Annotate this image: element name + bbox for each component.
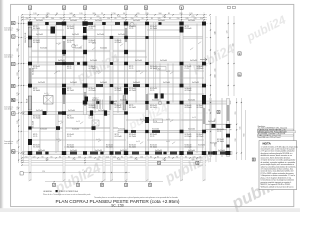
boxed label mid-right [154, 119, 163, 123]
beam band vertical axis 6 x181 [180, 22, 183, 155]
svg-text:G: G [239, 74, 241, 77]
svg-text:G2 25x45: G2 25x45 [115, 90, 122, 92]
svg-text:SP 25: SP 25 [129, 66, 133, 68]
svg-text:150: 150 [130, 156, 133, 158]
svg-text:B: B [12, 84, 14, 88]
svg-text:340: 340 [214, 31, 216, 34]
axis centerlines [21, 12, 208, 166]
svg-text:SP 25: SP 25 [115, 134, 119, 136]
svg-text:G5 20x35: G5 20x35 [129, 146, 136, 148]
svg-text:140: 140 [17, 28, 19, 31]
svg-text:85: 85 [121, 156, 123, 158]
svg-text:C1 25: C1 25 [129, 28, 133, 30]
svg-text:Ap: Ap [12, 150, 16, 154]
left dimension lines [19, 16, 24, 163]
axis stubs below plan [29, 156, 31, 181]
svg-text:h=13: h=13 [136, 141, 140, 143]
svg-text:90: 90 [56, 13, 58, 15]
svg-text:230: 230 [235, 139, 237, 142]
lower partial dim line [22, 172, 130, 174]
svg-text:S2 35x45: S2 35x45 [150, 134, 157, 136]
svg-text:Gr.25x40: Gr.25x40 [210, 142, 217, 145]
drawing frame [11, 4, 294, 206]
svg-text:Gr.25x40: Gr.25x40 [70, 149, 77, 152]
beam band vertical axis 1 x30 [29, 22, 32, 155]
svg-text:G3 30x40: G3 30x40 [150, 146, 157, 148]
svg-text:265: 265 [96, 159, 99, 161]
svg-text:150: 150 [107, 18, 110, 20]
beam band y113 left [23, 112, 128, 115]
beam band vertical axis 2 x64 [63, 22, 66, 155]
svg-text:210: 210 [25, 156, 28, 158]
svg-text:G5 20x35: G5 20x35 [197, 107, 204, 109]
svg-text:25: 25 [101, 13, 103, 15]
svg-text:145: 145 [117, 159, 120, 161]
svg-text:G1 25x40: G1 25x40 [150, 28, 157, 30]
svg-text:h=13: h=13 [96, 139, 100, 141]
svg-text:G1 25x40: G1 25x40 [33, 117, 40, 119]
svg-text:Gr.25x40: Gr.25x40 [163, 81, 170, 84]
small axis bubble left of nota [252, 158, 255, 161]
svg-text:G2 25x45: G2 25x45 [129, 90, 136, 92]
svg-text:vezi detaliu: vezi detaliu [4, 142, 13, 145]
svg-text:Gr.25x40: Gr.25x40 [118, 33, 125, 36]
svg-text:Gr.30x45: Gr.30x45 [36, 33, 43, 36]
svg-text:S2 35x45: S2 35x45 [129, 88, 136, 90]
svg-text:S3 45x35: S3 45x35 [129, 26, 136, 28]
svg-text:Gr.25x35: Gr.25x35 [120, 149, 127, 152]
scan edge bottom [0, 208, 300, 212]
svg-text:215: 215 [17, 140, 19, 143]
svg-text:SP 25: SP 25 [129, 105, 133, 107]
svg-text:h=13: h=13 [74, 45, 78, 47]
beam line y37 right part [148, 36, 206, 38]
svg-text:Gr.25x35: Gr.25x35 [38, 81, 45, 84]
svg-text:G5 20x35: G5 20x35 [150, 107, 157, 109]
svg-text:85: 85 [168, 13, 170, 15]
svg-text:220: 220 [17, 72, 19, 75]
svg-text:260: 260 [179, 13, 182, 15]
svg-text:h=13: h=13 [192, 117, 196, 119]
thin beam line y128 left part [29, 127, 118, 128]
svg-text:Gr.25x35: Gr.25x35 [155, 149, 162, 152]
svg-text:hp=13: hp=13 [113, 101, 118, 103]
svg-text:S4 40x40: S4 40x40 [185, 88, 192, 90]
svg-text:145: 145 [117, 16, 120, 18]
beam band vertical axis 4 x126 [125, 22, 128, 155]
svg-text:h=13: h=13 [140, 119, 144, 121]
svg-text:Gr.25x35: Gr.25x35 [120, 98, 127, 101]
svg-text:90: 90 [168, 156, 170, 158]
right wing dimension lines [237, 98, 246, 160]
svg-text:Gr.30x45: Gr.30x45 [133, 81, 140, 84]
svg-text:210: 210 [134, 159, 137, 161]
svg-text:G3 30x40: G3 30x40 [67, 28, 74, 30]
svg-text:S2 35x45: S2 35x45 [197, 105, 204, 107]
svg-text:210: 210 [106, 156, 109, 158]
svg-text:G2 25x45: G2 25x45 [185, 90, 192, 92]
svg-text:Gr.20x40: Gr.20x40 [218, 149, 225, 152]
svg-text:Gr.25x35: Gr.25x35 [133, 19, 140, 22]
svg-text:365: 365 [92, 13, 95, 15]
svg-text:240: 240 [51, 18, 54, 20]
beam line vertical x155 top-right [154, 22, 156, 88]
svg-text:G1 25x40: G1 25x40 [89, 90, 96, 92]
svg-text:185: 185 [17, 120, 19, 123]
svg-text:G1 25x40: G1 25x40 [185, 136, 192, 138]
svg-text:S1 45x45: S1 45x45 [115, 105, 122, 107]
svg-text:150: 150 [60, 18, 63, 20]
svg-text:SP 25: SP 25 [33, 88, 37, 90]
svg-text:90: 90 [123, 13, 125, 15]
shear wall end blobs offset from bands [51, 27, 56, 34]
secondary beam lines horizontal [29, 29, 204, 147]
svg-text:SP 25: SP 25 [185, 26, 189, 28]
svg-text:G2 25x45: G2 25x45 [115, 42, 122, 44]
svg-text:340: 340 [45, 159, 48, 161]
svg-text:120: 120 [140, 156, 143, 158]
beam band vertical axis 5 x147 [146, 22, 149, 155]
svg-text:300: 300 [158, 13, 161, 15]
svg-text:G3 30x40: G3 30x40 [185, 107, 192, 109]
wall segments on horizontal bands [56, 22, 63, 25]
svg-text:C1 25: C1 25 [33, 136, 37, 138]
svg-text:85: 85 [99, 156, 101, 158]
svg-text:65: 65 [90, 18, 92, 20]
svg-text:S3 45x35: S3 45x35 [150, 105, 157, 107]
svg-text:G3 30x40: G3 30x40 [150, 68, 157, 70]
svg-text:C1 25: C1 25 [67, 42, 71, 44]
svg-text:S1 45x45: S1 45x45 [89, 40, 96, 42]
svg-text:S1 45x45: S1 45x45 [67, 40, 74, 42]
svg-text:S4 40x40: S4 40x40 [185, 105, 192, 107]
svg-text:S3 45x35: S3 45x35 [115, 40, 122, 42]
svg-text:Gr.25x40: Gr.25x40 [97, 33, 104, 36]
svg-text:C1 25: C1 25 [129, 68, 133, 70]
svg-text:260: 260 [17, 48, 19, 51]
svg-text:h=13: h=13 [56, 139, 60, 141]
svg-text:Gr.20x40: Gr.20x40 [90, 59, 97, 62]
svg-text:A: A [12, 112, 14, 116]
svg-text:S1 45x45: S1 45x45 [150, 88, 157, 90]
scan edge left [0, 0, 2, 212]
svg-text:Gr.20x40: Gr.20x40 [160, 59, 167, 62]
svg-text:Gr.20x40: Gr.20x40 [188, 127, 195, 130]
bottom dimension lines [22, 158, 206, 165]
svg-text:STALPI SI PERETI B.A.: STALPI SI PERETI B.A. [59, 190, 79, 193]
svg-text:vezi detaliu: vezi detaliu [4, 108, 13, 111]
svg-text:Gr.25x40: Gr.25x40 [95, 19, 102, 22]
svg-text:345: 345 [162, 16, 165, 18]
svg-text:h=13: h=13 [44, 93, 48, 95]
svg-text:SC. 1:50: SC. 1:50 [111, 204, 124, 208]
svg-text:Gr.20x40: Gr.20x40 [135, 59, 142, 62]
svg-text:G1 25x40: G1 25x40 [185, 146, 192, 148]
svg-text:210: 210 [72, 16, 75, 18]
svg-text:vezi detaliu: vezi detaliu [4, 56, 13, 59]
svg-text:S4 40x40: S4 40x40 [185, 145, 192, 147]
svg-text:C1 25: C1 25 [67, 136, 71, 138]
svg-text:Gr.20x40: Gr.20x40 [152, 98, 159, 101]
svg-text:SP 25: SP 25 [67, 66, 71, 68]
svg-text:Gr.30x45: Gr.30x45 [118, 127, 125, 130]
beam band y131 right part [118, 130, 206, 133]
stair hatch cluster [93, 100, 102, 110]
svg-text:Gr.25x35: Gr.25x35 [95, 149, 102, 152]
secondary beam lines vertical [37, 24, 222, 158]
svg-text:Gr.25x35: Gr.25x35 [190, 59, 197, 62]
shaft opening with diagonals [44, 96, 54, 105]
top axis bubbles [29, 9, 31, 15]
svg-text:Gr.30x45: Gr.30x45 [70, 81, 77, 84]
small room walls x110-124 [110, 96, 111, 110]
svg-text:E: E [12, 21, 14, 25]
svg-text:G2 25x45: G2 25x45 [197, 136, 204, 138]
svg-text:h=13: h=13 [166, 141, 170, 143]
svg-text:vezi detaliu: vezi detaliu [4, 29, 13, 32]
svg-text:P1 20: P1 20 [25, 33, 27, 37]
svg-text:h=13: h=13 [92, 43, 96, 45]
svg-text:120: 120 [227, 31, 229, 34]
svg-text:S2 35x45: S2 35x45 [217, 139, 224, 141]
svg-text:S1 45x45: S1 45x45 [150, 145, 157, 147]
svg-text:90: 90 [176, 156, 178, 158]
svg-text:BETON C20/25 OTEL PC52+OB37: BETON C20/25 OTEL PC52+OB37 DDE [258, 131, 287, 133]
svg-text:G1 25x40: G1 25x40 [33, 28, 40, 30]
svg-text:Beneficiar:: Beneficiar: [258, 126, 266, 128]
svg-text:Gr.25x40: Gr.25x40 [38, 149, 45, 152]
svg-text:C: C [12, 62, 14, 66]
svg-text:G5 20x35: G5 20x35 [67, 117, 74, 119]
svg-text:SP 25: SP 25 [67, 116, 71, 118]
bubbles just below bottom band [158, 161, 161, 164]
svg-text:Gr.25x40: Gr.25x40 [208, 120, 215, 123]
svg-text:S3 45x35: S3 45x35 [89, 105, 96, 107]
svg-text:G5 20x35: G5 20x35 [106, 146, 113, 148]
beam band y63 [29, 62, 206, 65]
svg-text:Gr.25x35: Gr.25x35 [58, 59, 65, 62]
beam band vertical axis 3 x85 [84, 22, 87, 115]
svg-text:Gr.25x40: Gr.25x40 [188, 19, 195, 22]
svg-text:120: 120 [42, 171, 45, 173]
svg-text:SP 25: SP 25 [67, 88, 71, 90]
small circles symbols [130, 22, 134, 26]
svg-text:150: 150 [122, 18, 125, 20]
left axis bubbles [15, 22, 19, 24]
right wing side bubble [217, 111, 220, 114]
svg-text:Gr.25x40: Gr.25x40 [40, 46, 47, 49]
svg-text:Gr.30x45: Gr.30x45 [158, 19, 165, 22]
svg-text:S4 40x40: S4 40x40 [150, 66, 157, 68]
bottom axis bubble row [45, 181, 163, 183]
svg-text:85: 85 [157, 156, 159, 158]
svg-text:210: 210 [72, 159, 75, 161]
svg-text:255: 255 [235, 112, 237, 115]
beam band bottom y153 [23, 151, 233, 154]
svg-text:25x110: 25x110 [25, 38, 27, 43]
svg-text:Gr.20x40: Gr.20x40 [98, 109, 105, 112]
svg-text:Gr.25x35: Gr.25x35 [192, 81, 199, 84]
svg-text:85: 85 [200, 156, 202, 158]
right axis bubbles [238, 52, 241, 55]
svg-text:h=13: h=13 [136, 71, 140, 73]
beam band axis1 horizontal top [29, 22, 206, 25]
svg-text:S2 35x45: S2 35x45 [89, 88, 96, 90]
svg-text:Gr.20x40: Gr.20x40 [92, 98, 99, 101]
svg-text:C1 25: C1 25 [89, 28, 93, 30]
svg-text:Terasele plan se va verifica r: Terasele plan se va verifica respectarea… [94, 196, 178, 199]
svg-text:210: 210 [134, 16, 137, 18]
svg-text:120: 120 [33, 13, 36, 15]
svg-text:G3 30x40: G3 30x40 [33, 90, 40, 92]
svg-text:415: 415 [84, 171, 87, 173]
columns at axis intersections [28, 22, 32, 26]
svg-text:S2 35x45: S2 35x45 [185, 134, 192, 136]
svg-text:S3 45x35: S3 45x35 [33, 145, 40, 147]
beam band vertical right edge x204 [203, 22, 206, 155]
svg-text:C1 25: C1 25 [150, 136, 154, 138]
svg-text:120: 120 [79, 18, 82, 20]
extra top-right small squares [228, 6, 231, 9]
svg-text:C1 25: C1 25 [217, 131, 221, 133]
svg-text:S3 45x35: S3 45x35 [150, 26, 157, 28]
svg-text:S1 45x45: S1 45x45 [67, 134, 74, 136]
svg-text:Gr.30x45: Gr.30x45 [40, 127, 47, 130]
svg-text:S2 35x45: S2 35x45 [33, 40, 40, 42]
svg-text:S4 40x40: S4 40x40 [197, 66, 204, 68]
svg-text:120: 120 [79, 13, 82, 15]
svg-text:85: 85 [150, 156, 152, 158]
svg-text:h=13: h=13 [96, 71, 100, 73]
svg-text:545: 545 [240, 127, 242, 130]
svg-text:S4 40x40: S4 40x40 [89, 26, 96, 28]
beam band y85 [29, 84, 206, 87]
section arrow right [200, 58, 207, 61]
svg-text:430: 430 [214, 74, 216, 77]
svg-text:h=13: h=13 [166, 119, 170, 121]
svg-text:Gr.20x40: Gr.20x40 [188, 149, 195, 152]
framed wall on axis1 vertical [28, 27, 31, 47]
svg-text:C1 25: C1 25 [67, 68, 71, 70]
svg-text:345: 345 [162, 159, 165, 161]
svg-text:G2 25x45: G2 25x45 [115, 107, 122, 109]
svg-text:225: 225 [191, 159, 194, 161]
svg-text:210: 210 [112, 13, 115, 15]
svg-text:65: 65 [51, 156, 53, 158]
svg-text:S1 45x45: S1 45x45 [89, 66, 96, 68]
svg-text:S1 45x45: S1 45x45 [197, 134, 204, 136]
svg-text:S2 35x45: S2 35x45 [33, 66, 40, 68]
svg-text:h=13: h=13 [56, 43, 60, 45]
beam band y102 right [85, 101, 231, 104]
svg-text:85: 85 [59, 156, 61, 158]
NOTA block [259, 141, 297, 190]
svg-text:90: 90 [142, 18, 144, 20]
svg-text:C1 25: C1 25 [150, 90, 154, 92]
svg-text:Gr.20x40: Gr.20x40 [100, 46, 107, 49]
beam band vertical x111 [110, 36, 113, 155]
svg-text:SP 25: SP 25 [89, 116, 93, 118]
small opening 2 [92, 120, 99, 126]
svg-text:G2 25x45: G2 25x45 [67, 90, 74, 92]
svg-text:85: 85 [169, 18, 171, 20]
slab label top-right [157, 67, 166, 71]
svg-text:G3 30x40: G3 30x40 [197, 68, 204, 70]
svg-text:85: 85 [185, 156, 187, 158]
svg-text:Bp: Bp [12, 98, 16, 102]
svg-text:Gr.25x40: Gr.25x40 [68, 109, 75, 112]
svg-text:S2 35x45: S2 35x45 [129, 134, 136, 136]
svg-text:G3 30x40: G3 30x40 [217, 141, 224, 143]
svg-text:C1 25: C1 25 [89, 117, 93, 119]
svg-text:120: 120 [193, 156, 196, 158]
svg-text:G3 30x40: G3 30x40 [185, 28, 192, 30]
leader line marks [46, 42, 201, 144]
top dimension lines [22, 15, 207, 20]
svg-text:85: 85 [151, 18, 153, 20]
svg-text:S2 35x45: S2 35x45 [185, 66, 192, 68]
svg-text:h=13: h=13 [56, 71, 60, 73]
svg-text:240: 240 [78, 156, 81, 158]
svg-text:G2 25x45: G2 25x45 [89, 68, 96, 70]
svg-text:S1 45x45: S1 45x45 [67, 26, 74, 28]
svg-text:Verificarea calitatii se face: Verificarea calitatii se face pe faze de… [261, 185, 295, 188]
svg-text:h=13: h=13 [76, 121, 80, 123]
svg-text:525: 525 [214, 51, 216, 54]
svg-text:415: 415 [214, 69, 216, 72]
svg-text:150: 150 [26, 18, 29, 20]
svg-text:Gr.20x40: Gr.20x40 [36, 19, 43, 22]
svg-text:h=13: h=13 [166, 71, 170, 73]
svg-text:340: 340 [45, 16, 48, 18]
svg-text:S4 40x40: S4 40x40 [33, 116, 40, 118]
svg-text:Gr.30x45: Gr.30x45 [70, 19, 77, 22]
svg-text:Gr.25x40: Gr.25x40 [36, 109, 43, 112]
svg-text:S1 45x45: S1 45x45 [67, 145, 74, 147]
svg-text:G5 20x35: G5 20x35 [33, 146, 40, 148]
svg-text:Gr.25x35: Gr.25x35 [198, 144, 205, 147]
right wing beam lines y124 y130 [204, 124, 232, 130]
svg-text:105: 105 [17, 106, 19, 109]
svg-text:G3 30x40: G3 30x40 [89, 107, 96, 109]
svg-text:120: 120 [33, 156, 36, 158]
svg-text:D: D [12, 35, 14, 39]
svg-text:LEGENDA: LEGENDA [43, 190, 52, 193]
svg-text:Gr.25x35: Gr.25x35 [188, 98, 195, 101]
svg-text:85: 85 [115, 18, 117, 20]
svg-text:210: 210 [200, 18, 203, 20]
svg-text:S1 45x45: S1 45x45 [106, 145, 113, 147]
svg-text:90: 90 [42, 156, 44, 158]
svg-text:600: 600 [244, 134, 246, 137]
svg-text:340: 340 [232, 44, 234, 47]
svg-text:150: 150 [177, 18, 180, 20]
svg-text:NOTA: NOTA [263, 141, 272, 145]
svg-text:G1 25x40: G1 25x40 [129, 136, 136, 138]
svg-text:G2 25x40: G2 25x40 [33, 121, 35, 128]
svg-text:Gr.30x45: Gr.30x45 [100, 81, 107, 84]
svg-text:SP 25: SP 25 [33, 134, 37, 136]
svg-text:170: 170 [17, 92, 19, 95]
wall hatched segments [29, 68, 31, 88]
svg-text:S4 40x40: S4 40x40 [217, 129, 224, 131]
svg-text:Gr.25x35: Gr.25x35 [72, 127, 79, 130]
svg-text:G5 20x35: G5 20x35 [33, 42, 40, 44]
svg-text:G1 25x40: G1 25x40 [67, 146, 74, 148]
beam line y50 secondary [29, 50, 147, 52]
svg-text:Gr.20x40: Gr.20x40 [152, 127, 159, 130]
beam band right wing x228 [227, 99, 230, 157]
